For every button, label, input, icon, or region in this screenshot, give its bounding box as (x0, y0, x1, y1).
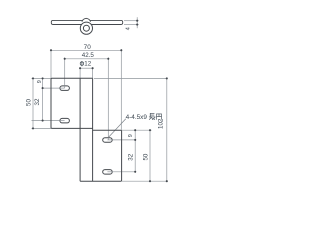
svg-text:102: 102 (158, 118, 165, 129)
dots: dim 50 right (149, 129, 151, 131)
label kanji "円" (vector strokes) (157, 114, 162, 120)
wire: dim line 50 left (32, 78, 34, 128)
svg-text:50: 50 (25, 99, 32, 106)
dots: dim phi12 (79, 67, 81, 69)
svg-text:32: 32 (127, 153, 134, 160)
svg-text:32: 32 (34, 98, 41, 105)
wire: dim line phi12 (80, 67, 93, 69)
wire: ext slot R1 center (107, 139, 136, 141)
wire: ext slot L1 center (42, 87, 65, 89)
hinge top view: knuckle curl bump (82, 18, 91, 21)
wire: ext bottom edge right (122, 180, 167, 182)
wire: dim line 42.5 (65, 58, 109, 60)
wire: ext slot L2 center (32, 120, 65, 122)
wire: ext slot R2 center (107, 171, 136, 173)
dots: right chain 9/32 (134, 129, 136, 131)
wire: dim line 70 (51, 49, 121, 51)
wire: top-view thickness extension bottom (124, 24, 139, 26)
svg-text:70: 70 (84, 44, 92, 51)
front view: right plate outline (80, 130, 122, 181)
svg-text:42.5: 42.5 (82, 52, 95, 59)
wire: ext left of phi12 dim (79, 68, 81, 78)
wire: dim line 50 right (149, 130, 151, 181)
dots: dim 70 (50, 49, 52, 51)
wire: dim chain 9/32 right (134, 130, 136, 172)
wire: ext left of 70 dim (50, 49, 52, 78)
front view: left plate outline (51, 78, 93, 128)
svg-text:9: 9 (128, 134, 134, 137)
front view: pipe left edge (79, 78, 81, 181)
text phi12 (80, 61, 92, 68)
slot hole L2 (60, 118, 70, 123)
wire: top-view thickness extension top (124, 20, 139, 22)
slot hole R1 (103, 138, 113, 143)
svg-text:50: 50 (142, 153, 149, 160)
wire: ext left of 42.5 dim (64, 57, 66, 88)
dots: dim 102 (166, 77, 168, 79)
wire: dim line 102 (166, 78, 168, 181)
wire: dim line 4 (vertical) (136, 17, 138, 28)
dots: left chain 9/32 (42, 77, 44, 79)
svg-text:4: 4 (126, 27, 132, 30)
dots: dim 50 left (32, 77, 34, 79)
label kanji "長" (vector strokes) (149, 113, 155, 119)
svg-text:12: 12 (84, 61, 91, 68)
svg-text:9: 9 (37, 80, 43, 83)
hinge top view: knuckle outer circle (80, 22, 92, 34)
wire: ext right of 70 dim (120, 49, 122, 130)
wire: ext right plate top (122, 129, 152, 131)
wire: ext top-left plate corner (32, 77, 52, 79)
dots: dim 4 (136, 20, 138, 22)
wire: dim chain 9/32 left (42, 78, 44, 120)
wire: ext right of phi12 dim (92, 68, 94, 78)
leader line of hole label (109, 119, 126, 137)
front view: pipe right edge (92, 78, 94, 181)
dots: dim 42.5 (64, 58, 66, 60)
wire: ext 102 top (94, 77, 167, 79)
slot hole R2 (103, 170, 113, 175)
hinge top view: leaf bar (51, 20, 122, 24)
svg-text:4-4.5x9: 4-4.5x9 (126, 114, 148, 121)
wire: ext segments drawn inside slots (60, 86, 113, 172)
wire: ext left plate bottom (32, 127, 52, 129)
wire: ext right of 42.5 dim (107, 57, 109, 139)
hinge top view: pin hole inner circle (83, 25, 89, 31)
slot hole L1 (4.5x9 obround) (60, 86, 70, 91)
